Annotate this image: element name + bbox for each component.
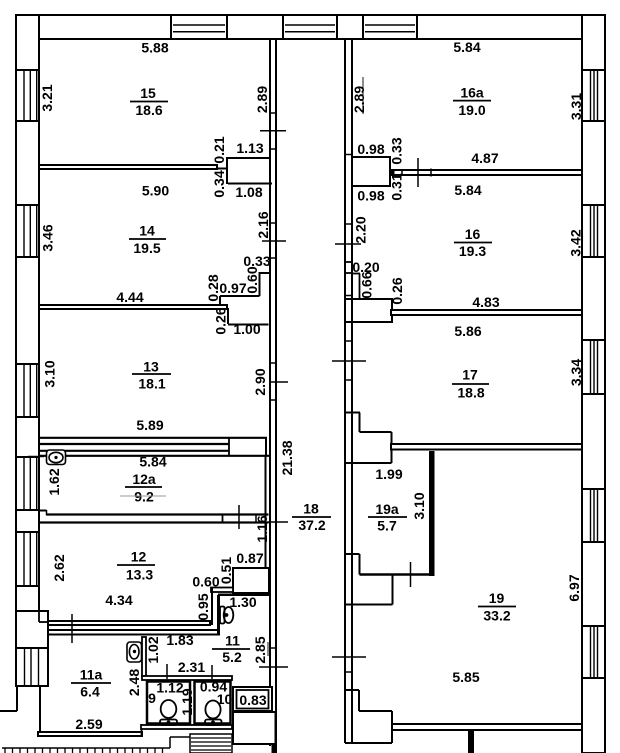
- svg-text:19: 19: [489, 590, 505, 606]
- tick left wall 1.16: [268, 521, 288, 523]
- svg-text:0.98: 0.98: [357, 141, 384, 157]
- alcove top line: [218, 594, 270, 597]
- svg-text:1.00: 1.00: [233, 321, 260, 337]
- svg-text:19a: 19a: [375, 501, 399, 517]
- closet 0.83 outer: [233, 687, 272, 711]
- svg-text:0.34: 0.34: [211, 170, 227, 197]
- svg-text:0.33: 0.33: [389, 137, 405, 164]
- sink room 12a: [47, 450, 66, 465]
- svg-text:4.34: 4.34: [105, 592, 132, 608]
- bathroom 9 box: [147, 682, 190, 724]
- black stub below 19: [468, 731, 474, 753]
- vestibule below closet: [233, 712, 276, 744]
- tick right wall 2.20/0.26: [332, 360, 366, 362]
- wall 0.95 (12 east): [211, 588, 213, 625]
- tick 2.89 left: [260, 130, 286, 132]
- svg-text:2.59: 2.59: [75, 716, 102, 732]
- step outer wall y611: [38, 611, 40, 622]
- room 11 west wall upper: [217, 595, 220, 634]
- wall 12a north: [39, 450, 229, 452]
- win r4: [582, 489, 605, 542]
- bathrooms bottom band: [141, 725, 232, 729]
- svg-text:2.31: 2.31: [178, 659, 205, 675]
- svg-text:0.21: 0.21: [211, 136, 227, 163]
- win 3.21: [16, 70, 39, 121]
- svg-text:5.2: 5.2: [222, 649, 242, 665]
- svg-text:0.28: 0.28: [205, 274, 221, 301]
- left outer wall lower (wider): [16, 611, 48, 686]
- bottom wall 11a: [38, 732, 142, 736]
- room 12a east wall: [265, 456, 267, 568]
- svg-text:5.89: 5.89: [136, 417, 163, 433]
- pillar D L-wall 19a/19: [344, 553, 360, 555]
- corridor 18 left wall: [269, 39, 271, 746]
- wall 14/13: [39, 305, 227, 309]
- svg-text:1.19: 1.19: [179, 688, 195, 715]
- door stub wall 16a/16: [391, 170, 395, 177]
- left outer wall upper: [16, 15, 39, 611]
- block 13/12a verticals: [228, 438, 230, 456]
- svg-text:5.90: 5.90: [142, 183, 169, 199]
- svg-text:0.83: 0.83: [239, 692, 266, 708]
- top windows: [171, 15, 227, 39]
- win 3.34: [582, 340, 605, 394]
- svg-text:1.99: 1.99: [375, 466, 402, 482]
- svg-text:15: 15: [140, 85, 156, 101]
- svg-text:0.60: 0.60: [192, 574, 219, 590]
- wall 12 south: [48, 621, 210, 625]
- niche 0.20/0.66 room 16: [344, 261, 352, 263]
- svg-text:10: 10: [217, 691, 233, 707]
- svg-text:5.86: 5.86: [454, 323, 481, 339]
- svg-text:12a: 12a: [132, 471, 156, 487]
- block 0.87: [233, 568, 269, 593]
- svg-text:2.16: 2.16: [255, 211, 271, 238]
- tick 5.85: [332, 656, 366, 658]
- svg-text:2.85: 2.85: [252, 636, 268, 663]
- svg-text:5.85: 5.85: [452, 669, 479, 685]
- wall 15/14: [39, 165, 217, 169]
- svg-text:1.13: 1.13: [236, 140, 263, 156]
- svg-text:18.6: 18.6: [135, 102, 162, 118]
- wall 16/17: [391, 310, 582, 315]
- svg-text:11: 11: [225, 633, 240, 649]
- partition 19a/19 black: [429, 451, 435, 576]
- win 3.10: [16, 364, 39, 417]
- door leaf bath 10: [211, 665, 213, 679]
- right outer wall: [582, 15, 605, 753]
- wall 11a north: [48, 630, 219, 635]
- tick 2.85: [259, 666, 288, 668]
- svg-text:1.62: 1.62: [46, 468, 62, 495]
- stair shaft walls: [345, 689, 359, 691]
- svg-text:0.95: 0.95: [195, 593, 211, 620]
- svg-text:4.44: 4.44: [116, 289, 143, 305]
- tick corridor 21.38: [270, 381, 288, 383]
- svg-text:2.48: 2.48: [126, 669, 142, 696]
- svg-text:0.98: 0.98: [357, 188, 384, 204]
- outer top wall: [16, 15, 604, 39]
- svg-text:2.89: 2.89: [351, 86, 367, 113]
- svg-text:5.88: 5.88: [141, 40, 168, 56]
- tick 4.34: [71, 614, 73, 643]
- tick left wall 2.16: [262, 240, 286, 242]
- svg-text:5.84: 5.84: [453, 39, 480, 55]
- thin line through 9.2: [120, 495, 166, 497]
- svg-text:3.42: 3.42: [568, 229, 584, 256]
- wall 0.60: [211, 588, 233, 593]
- win 3.42: [582, 205, 605, 257]
- svg-text:3.21: 3.21: [39, 84, 55, 111]
- pillar C L-wall 17/19a: [344, 412, 360, 414]
- svg-text:2.20: 2.20: [353, 216, 369, 243]
- bathroom 10 box: [195, 682, 231, 724]
- svg-text:0.97: 0.97: [219, 280, 246, 296]
- svg-text:5.7: 5.7: [377, 518, 397, 534]
- svg-text:1.16: 1.16: [254, 515, 270, 542]
- tick 19a south: [410, 562, 412, 587]
- svg-text:3.34: 3.34: [568, 359, 584, 386]
- svg-text:14: 14: [139, 223, 155, 239]
- svg-text:3.31: 3.31: [568, 93, 584, 120]
- terrace hatched band: [2, 747, 170, 749]
- svg-text:9: 9: [148, 690, 156, 706]
- door jambs wall 16a/16: [401, 169, 403, 176]
- svg-text:6.4: 6.4: [80, 684, 100, 700]
- svg-text:1.02: 1.02: [145, 636, 161, 663]
- wall 19 south: [392, 724, 582, 730]
- window 11a: [16, 648, 48, 686]
- door jambs corridor left: [269, 112, 277, 114]
- wall 16a/16: [390, 170, 582, 175]
- tick left wall 12a: [28, 456, 44, 458]
- svg-text:19.3: 19.3: [459, 243, 486, 259]
- closet 0.83 inner: [237, 690, 269, 709]
- svg-text:1.30: 1.30: [229, 594, 256, 610]
- svg-text:19.5: 19.5: [133, 240, 160, 256]
- win 2.62: [16, 532, 39, 586]
- toilet bath 9: [160, 700, 177, 725]
- pillar A duct 16a/16: [352, 157, 390, 186]
- tick 12a/12: [238, 505, 240, 529]
- win 3.31: [582, 70, 605, 121]
- corridor 18 right wall: [344, 39, 346, 743]
- svg-text:13: 13: [143, 359, 159, 375]
- svg-text:4.87: 4.87: [471, 150, 498, 166]
- door jambs corridor right: [344, 154, 353, 156]
- svg-text:18: 18: [303, 501, 319, 517]
- svg-text:11a: 11a: [80, 667, 103, 683]
- room 14 SE niche: [259, 272, 272, 274]
- svg-text:2.89: 2.89: [254, 86, 270, 113]
- door jamb 12a/12: [255, 514, 257, 524]
- svg-text:0.87: 0.87: [236, 550, 263, 566]
- toilet bath 10: [205, 701, 222, 726]
- wall 17/19a: [391, 444, 582, 450]
- sink room 11a: [127, 642, 142, 662]
- wall 19a south: [360, 573, 434, 576]
- svg-text:3.10: 3.10: [41, 360, 57, 387]
- stairs bottom: [190, 734, 232, 753]
- svg-text:3.46: 3.46: [40, 224, 56, 251]
- pillar B duct 16/17: [345, 299, 392, 322]
- svg-text:0.26: 0.26: [389, 277, 405, 304]
- svg-text:5.84: 5.84: [454, 182, 481, 198]
- svg-text:2.62: 2.62: [51, 554, 67, 581]
- svg-text:0.26: 0.26: [213, 307, 229, 334]
- svg-text:0.51: 0.51: [218, 557, 234, 584]
- svg-text:17: 17: [462, 367, 478, 383]
- svg-text:37.2: 37.2: [298, 517, 325, 533]
- svg-text:6.97: 6.97: [566, 574, 582, 601]
- wall below window 11a: [16, 686, 18, 711]
- win 1.62: [16, 457, 39, 510]
- svg-text:4.83: 4.83: [472, 294, 499, 310]
- svg-text:5.84: 5.84: [139, 454, 166, 470]
- svg-text:2.90: 2.90: [252, 368, 268, 395]
- room 11 west wall lower 1.02: [142, 637, 146, 676]
- svg-text:21.38: 21.38: [279, 440, 295, 475]
- tick 4.87: [417, 158, 419, 187]
- toilet room 11: [220, 607, 233, 624]
- svg-text:0.66: 0.66: [359, 271, 375, 298]
- svg-text:33.2: 33.2: [483, 608, 510, 624]
- wall 13 south: [39, 437, 267, 439]
- svg-text:12: 12: [131, 549, 147, 565]
- svg-text:1.08: 1.08: [235, 184, 262, 200]
- underline 2.85: [267, 642, 269, 656]
- svg-text:16a: 16a: [460, 85, 484, 101]
- room 15 SE step: [227, 157, 271, 159]
- svg-text:3.10: 3.10: [411, 492, 427, 519]
- svg-text:19.0: 19.0: [458, 102, 485, 118]
- tick 2.20: [335, 243, 361, 245]
- svg-text:13.3: 13.3: [126, 567, 153, 583]
- bathrooms top wall: [142, 676, 232, 680]
- win r5: [582, 626, 605, 678]
- svg-text:1.83: 1.83: [166, 632, 193, 648]
- door leaf bath 9: [166, 664, 168, 679]
- wall 12a south: [39, 510, 47, 512]
- svg-text:0.31: 0.31: [389, 173, 405, 200]
- win 3.46: [16, 205, 39, 257]
- underline 2.89 right: [362, 77, 364, 114]
- svg-text:18.1: 18.1: [138, 376, 165, 392]
- svg-text:18.8: 18.8: [457, 385, 484, 401]
- corridor left wall bottom stub: [272, 744, 278, 753]
- svg-text:16: 16: [465, 226, 481, 242]
